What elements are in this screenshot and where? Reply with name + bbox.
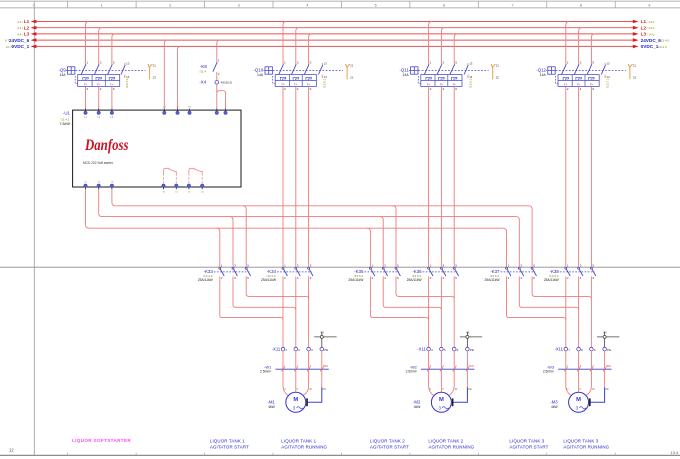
svg-text:4kW: 4kW — [268, 405, 275, 409]
svg-text:-K33: -K33 — [204, 269, 214, 274]
breaker Q12 linkage dashed line — [556, 70, 626, 72]
svg-text:5: 5 — [592, 61, 594, 65]
wire Q11 pole 1 output — [428, 86, 430, 267]
svg-text:I>: I> — [590, 82, 593, 86]
contactor K38 pole pin 1-2 — [565, 264, 570, 280]
wire Q12 pole 1 output — [565, 86, 567, 267]
terminal X11:2 — [294, 347, 300, 351]
breaker Q10 pole contact pin 1-2 — [279, 61, 286, 91]
svg-text:6: 6 — [455, 87, 457, 91]
svg-text:13.4: 13.4 — [671, 450, 680, 455]
wire tap U1 supply + from 24VDC_6 — [164, 40, 167, 111]
bus 24VDC_6 right label — [641, 38, 670, 43]
frame ruler tick at margin — [33, 1, 35, 8]
PE symbol group 3 — [597, 330, 619, 347]
contactor K33 pole pin 1-2 — [219, 264, 224, 280]
cable -W3 core 9 marker — [590, 365, 595, 371]
breaker Q10 pole contact pin 5-6 — [304, 61, 311, 91]
svg-text:-K36: -K36 — [412, 269, 422, 274]
U1 top terminal pin 5 — [110, 107, 114, 119]
wire X11 to motor -M2 phase U — [429, 351, 435, 396]
bus L2 right arrow — [633, 26, 639, 30]
svg-text:/ 14.0: / 14.0 — [647, 26, 655, 30]
svg-text:24VDC_6: 24VDC_6 — [9, 38, 30, 43]
U1 internal relay contact 189-202 — [189, 168, 202, 183]
svg-text:25A/11kW: 25A/11kW — [407, 278, 423, 282]
svg-text:M: M — [576, 397, 581, 403]
wire K35 pin 2 to motor column — [370, 276, 428, 320]
wire K37 pin 6 to motor column — [532, 276, 591, 299]
wire tap Q9 pole 3 from L3 — [112, 34, 115, 65]
svg-text:14A: 14A — [257, 73, 264, 77]
breaker Q11 aux contact 13/14 — [464, 62, 473, 79]
svg-text:5: 5 — [444, 348, 446, 352]
svg-text:/ 13.4.0: / 13.4.0 — [656, 45, 667, 49]
U1 bottom terminal T pin 2 — [84, 182, 88, 190]
breaker Q10 aux contact 13/14 — [319, 62, 328, 79]
terminal X11:1 — [281, 347, 287, 351]
bus 0VDC_1 right arrow — [633, 45, 639, 49]
bus L2 left arrow — [31, 26, 37, 30]
svg-text:13: 13 — [126, 62, 130, 66]
svg-text:14A: 14A — [403, 73, 410, 77]
wire tap K8 contact from 24VDC_6 — [217, 40, 220, 62]
svg-text:L3: L3 — [24, 32, 30, 37]
circuit-breaker -Q12 — [536, 68, 546, 78]
wire K33 pin 6 to motor column — [246, 276, 308, 299]
breaker Q9 trip-signal contact 21/22 — [148, 63, 156, 79]
svg-text:PE: PE — [468, 387, 472, 391]
function text LIQUOR TANK 1 AGITATOR START — [210, 439, 249, 450]
U1 top terminal pin A2 — [176, 106, 180, 120]
svg-text:21: 21 — [350, 63, 354, 67]
svg-text:3: 3 — [580, 61, 582, 65]
contactor -K34 labels — [261, 269, 277, 282]
svg-text:12.7 /: 12.7 / — [6, 45, 14, 49]
svg-text:14: 14 — [606, 75, 610, 79]
wire X11 to motor -M3 phase U — [566, 351, 572, 396]
wire tap U1 supply - from 0VDC_1 — [178, 46, 181, 111]
svg-text:/11.4.1: /11.4.1 — [60, 117, 70, 121]
svg-text:··: ·· — [177, 116, 179, 120]
wire tap Q10 pole 3 from L3 — [309, 34, 312, 65]
bus L2 left label — [17, 25, 29, 30]
svg-text:-K35: -K35 — [354, 269, 364, 274]
svg-text:1: 1 — [285, 348, 287, 352]
bus 0VDC_1 left label — [6, 44, 30, 49]
wire K34 pin 6 down to X11 — [308, 276, 310, 347]
svg-text:25A/11kW: 25A/11kW — [544, 278, 560, 282]
svg-text:L2: L2 — [24, 25, 30, 30]
U1 bottom terminal T pin 4 — [97, 182, 101, 190]
U1 top terminal pin 2 — [224, 107, 227, 120]
svg-text:AGITATOR RUNNING: AGITATOR RUNNING — [428, 445, 474, 450]
svg-text:6: 6 — [310, 87, 312, 91]
svg-text:/13.7.1: /13.7.1 — [606, 78, 610, 88]
svg-text:14A: 14A — [540, 73, 547, 77]
bus 24VDC_6 wire — [33, 39, 635, 41]
breaker Q11 pole contact pin 3-4 — [437, 61, 444, 91]
svg-text:8: 8 — [580, 4, 582, 8]
bus L1 wire — [33, 21, 635, 23]
svg-text:3: 3 — [238, 4, 240, 8]
svg-text:PE: PE — [470, 348, 474, 352]
breaker Q9 aux contact 13/14 — [121, 62, 130, 79]
breaker Q11 trip-signal contact 21/22 — [491, 63, 499, 79]
svg-text:L2: L2 — [641, 25, 647, 30]
cable -W2 core PEN marker — [466, 365, 474, 371]
svg-text:1: 1 — [430, 61, 432, 65]
wire tap Q12 pole 3 from L3 — [591, 34, 594, 65]
breaker Q9 pole contact pin 3-4 — [95, 61, 102, 91]
contactor K36 pole pin 1-2 — [428, 264, 433, 280]
panel separator line — [0, 266, 680, 268]
bus L3 right arrow — [633, 32, 639, 36]
terminal X11:PE — [603, 347, 611, 351]
svg-text:-X4: -X4 — [199, 80, 206, 85]
svg-text:4: 4 — [442, 87, 444, 91]
U1 top terminal pin A1 — [163, 106, 167, 120]
wire U1 output T at x=98.7 to start contactors — [99, 189, 520, 267]
cable -W1 core PEN marker — [320, 365, 328, 371]
svg-text:-X11: -X11 — [554, 347, 563, 352]
svg-text:-W2: -W2 — [410, 364, 417, 369]
svg-text:V: V — [297, 387, 299, 391]
svg-text:25A/11kW: 25A/11kW — [198, 278, 214, 282]
breaker Q11 pole contact pin 5-6 — [450, 61, 457, 91]
svg-text:22: 22 — [153, 75, 157, 79]
wire Q12 pole 3 output — [590, 86, 592, 267]
breaker Q10 linkage dashed line — [273, 70, 343, 72]
svg-text:-K38: -K38 — [550, 269, 560, 274]
svg-text:-Q11: -Q11 — [399, 68, 409, 73]
svg-text:14: 14 — [324, 75, 328, 79]
contactor -K36 labels — [407, 269, 423, 282]
wire K34 pin 2 down to X11 — [282, 276, 284, 347]
svg-text:22: 22 — [633, 75, 637, 79]
wire K33 pin 4 to motor column — [233, 276, 296, 310]
bus L3 left label — [17, 32, 29, 37]
svg-text:AGITATOR START: AGITATOR START — [210, 445, 249, 450]
breaker Q9 linkage dashed line — [75, 70, 145, 72]
bus 0VDC_1 right label — [641, 44, 667, 49]
breaker Q9 pole contact pin 5-6 — [108, 61, 115, 91]
svg-text:2.5mm²: 2.5mm² — [406, 370, 418, 374]
wire X11 to motor -M2 phase V — [441, 351, 444, 392]
svg-text:3: 3 — [442, 61, 444, 65]
soft starter U1 outline — [73, 110, 241, 187]
svg-text:V: V — [442, 387, 444, 391]
svg-text:LIQUOR SOFTSTARTER: LIQUOR SOFTSTARTER — [72, 438, 131, 443]
svg-text:V: V — [579, 387, 581, 391]
svg-text:I>: I> — [577, 82, 580, 86]
svg-text:1: 1 — [101, 4, 103, 8]
bus 24VDC_6 left arrow — [31, 38, 37, 42]
svg-text:/ 14.0: / 14.0 — [647, 32, 655, 36]
svg-text:-X11: -X11 — [417, 347, 426, 352]
svg-text:/13.5.1: /13.5.1 — [323, 78, 327, 88]
svg-text:1: 1 — [87, 61, 89, 65]
svg-text:7: 7 — [512, 4, 514, 8]
svg-text:4.4 /: 4.4 / — [17, 26, 23, 30]
svg-text:3: 3 — [438, 405, 441, 410]
svg-text:4: 4 — [297, 87, 299, 91]
svg-text:2: 2 — [169, 4, 171, 8]
svg-text:PE: PE — [324, 348, 328, 352]
contactor K35 pole pin 3-4 — [382, 264, 387, 280]
wire K38 pin 2 down to X11 — [565, 276, 567, 347]
frame top ruler — [0, 1, 680, 8]
svg-text:5: 5 — [375, 4, 377, 8]
contactor K36 pole pin 3-4 — [440, 264, 445, 280]
svg-text:/11.4: /11.4 — [200, 69, 207, 73]
svg-text:13: 13 — [606, 62, 610, 66]
svg-text:-M2: -M2 — [413, 400, 421, 405]
svg-text:21: 21 — [633, 63, 637, 67]
breaker Q11 pole contact pin 1-2 — [424, 61, 431, 91]
wire X11 PE to motor -M3 — [590, 351, 609, 406]
wire X11 to motor -M1 phase V — [296, 351, 299, 392]
breaker Q11 thermal-magnetic trip box — [418, 75, 462, 87]
wire tap Q9 pole 1 from L1 — [86, 22, 89, 65]
svg-text:2.5mm²: 2.5mm² — [543, 370, 555, 374]
cable -W2 core 5 marker — [440, 365, 445, 371]
svg-text:1: 1 — [284, 61, 286, 65]
contactor K37 pole pin 5-6 — [531, 264, 536, 280]
svg-text:-Q10: -Q10 — [253, 68, 263, 73]
svg-text:/ 13.4.0: / 13.4.0 — [659, 39, 670, 43]
function text LIQUOR TANK 3 AGITATOR START — [509, 439, 548, 450]
svg-text:4W(26.5): 4W(26.5) — [221, 81, 233, 85]
svg-text:14: 14 — [126, 75, 130, 79]
wire Q11 pole 3 output — [453, 86, 455, 267]
soft starter U1 labels — [59, 111, 70, 126]
svg-text:9: 9 — [594, 348, 596, 352]
contactor K33 linkage dashed line — [214, 271, 249, 273]
svg-text:14: 14 — [469, 75, 473, 79]
contactor K34 pole pin 3-4 — [295, 264, 300, 280]
breaker Q12 pole contact pin 3-4 — [574, 61, 581, 91]
bus L1 right arrow — [633, 20, 639, 24]
breaker Q12 manual actuator — [546, 67, 555, 74]
frame bottom ruler line — [0, 453, 680, 456]
wire Q10 pole 3 output — [308, 86, 310, 267]
contactor K33 pole pin 5-6 — [245, 264, 250, 280]
svg-text:I>: I> — [294, 82, 297, 86]
cable -W1 — [260, 364, 329, 373]
cable -W2 core 6 marker — [453, 365, 458, 371]
contactor K34 pole pin 5-6 — [308, 264, 313, 280]
svg-text:4kW: 4kW — [414, 405, 421, 409]
svg-text:··: ·· — [163, 116, 165, 120]
bus 0VDC_1 left arrow — [31, 45, 37, 49]
svg-text:3: 3 — [311, 348, 313, 352]
contactor K37 linkage dashed line — [501, 271, 536, 273]
wire tap Q12 pole 1 from L1 — [566, 22, 569, 65]
svg-text:PEN: PEN — [323, 365, 328, 368]
svg-text:25A/11kW: 25A/11kW — [261, 278, 277, 282]
svg-text:L1: L1 — [641, 19, 647, 24]
breaker Q9 pole contact pin 1-2 — [81, 61, 88, 91]
wire branch drop at x=233.0 — [230, 217, 233, 268]
svg-text:LIQUOR TANK 2: LIQUOR TANK 2 — [370, 439, 405, 444]
svg-text:PE: PE — [603, 330, 607, 334]
svg-text:5: 5 — [113, 61, 115, 65]
breaker Q9 manual actuator — [66, 67, 75, 74]
svg-text:PEN: PEN — [606, 365, 611, 368]
svg-text:U: U — [567, 387, 569, 391]
svg-text:9: 9 — [648, 4, 650, 8]
svg-text:PE: PE — [605, 387, 609, 391]
wire branch drop at x=219.8 — [216, 228, 219, 267]
wire X11 PE to motor -M1 — [307, 351, 326, 406]
terminal -X4 — [199, 80, 232, 85]
svg-text:5: 5 — [455, 61, 457, 65]
svg-text:MCD 202 Soft starter: MCD 202 Soft starter — [83, 161, 114, 165]
svg-text:AGITATOR START: AGITATOR START — [370, 445, 409, 450]
cable -W3 core 7 marker — [564, 365, 569, 371]
U1 relay output terminal pin 23 — [187, 184, 191, 193]
svg-text:3: 3 — [297, 61, 299, 65]
svg-text:I>: I> — [564, 82, 567, 86]
svg-text:25A/11kW: 25A/11kW — [485, 278, 501, 282]
bus L3 wire — [33, 33, 635, 35]
svg-text:-W3: -W3 — [547, 364, 554, 369]
svg-text:4: 4 — [580, 87, 582, 91]
svg-text:LIQUOR TANK 1: LIQUOR TANK 1 — [281, 439, 316, 444]
svg-text:13: 13 — [469, 62, 473, 66]
svg-text:3: 3 — [576, 405, 579, 410]
svg-text:1: 1 — [567, 61, 569, 65]
circuit-breaker -Q9 — [58, 68, 66, 78]
U1 top terminal pin 3 — [97, 107, 101, 119]
svg-text:LIQUOR TANK 1: LIQUOR TANK 1 — [210, 439, 245, 444]
PE symbol group 2 — [460, 330, 482, 347]
function text LIQUOR TANK 1 AGITATOR RUNNING — [281, 439, 327, 450]
wire K35 pin 6 to motor column — [396, 276, 454, 299]
wire tap Q11 pole 2 from L2 — [441, 28, 444, 65]
wire tap Q11 pole 1 from L1 — [429, 22, 432, 65]
svg-text:L3: L3 — [641, 32, 647, 37]
terminal X11:PE — [466, 347, 474, 351]
svg-text:13: 13 — [324, 62, 328, 66]
svg-text:-Q9: -Q9 — [58, 68, 66, 73]
circuit-breaker -Q10 — [253, 68, 263, 78]
wire branch drop at x=383.2 — [380, 217, 383, 268]
svg-text:I>: I> — [427, 82, 430, 86]
svg-text:-M3: -M3 — [550, 400, 558, 405]
svg-text:M: M — [439, 397, 444, 403]
svg-text:12: 12 — [9, 448, 14, 453]
wire K33 pin 2 to motor column — [220, 276, 283, 320]
contactor K35 pole pin 1-2 — [369, 264, 374, 280]
wire X11 to motor -M1 phase U — [283, 351, 289, 396]
wire K8 to X4 — [216, 72, 218, 81]
breaker Q12 pole contact pin 1-2 — [562, 61, 569, 91]
wire Q10 pole 1 output — [282, 86, 284, 267]
contactor -K37 labels — [485, 269, 501, 282]
contactor K35 pole pin 5-6 — [395, 264, 400, 280]
contactor K37 pole pin 3-4 — [518, 264, 523, 280]
wire K34 pin 4 down to X11 — [295, 276, 297, 347]
svg-text:-U1: -U1 — [63, 111, 71, 116]
function text LIQUOR TANK 2 AGITATOR START — [370, 439, 409, 450]
cable -W3 core 8 marker — [577, 365, 582, 371]
svg-text:LIQUOR TANK 3: LIQUOR TANK 3 — [563, 439, 598, 444]
contactor K33 pole pin 3-4 — [232, 264, 237, 280]
cable -W2 core 4 marker — [427, 365, 432, 371]
svg-text:··: ·· — [216, 116, 218, 120]
contactor -K38 labels — [544, 269, 560, 282]
frame left margin line — [33, 8, 35, 456]
wire Q12 pole 2 output — [578, 86, 580, 267]
svg-text:/13.4.1: /13.4.1 — [125, 78, 129, 88]
wire K35 pin 4 to motor column — [383, 276, 441, 310]
wire tap Q10 pole 2 from L2 — [296, 28, 299, 65]
contactor K34 pole pin 1-2 — [282, 264, 287, 280]
wire K37 pin 2 to motor column — [507, 276, 566, 320]
wire branch drop at x=396.0 — [393, 206, 396, 267]
svg-text:I>: I> — [453, 82, 456, 86]
svg-text:2: 2 — [567, 87, 569, 91]
wire X11 PE to motor -M2 — [453, 351, 472, 406]
svg-text:-M1: -M1 — [267, 400, 275, 405]
contactor K36 pole pin 5-6 — [453, 264, 458, 280]
svg-text:2: 2 — [284, 87, 286, 91]
svg-text:4kW: 4kW — [551, 405, 558, 409]
contactor K38 pole pin 5-6 — [590, 264, 595, 280]
wire branch to U1 second control input — [217, 91, 226, 111]
terminal X11:5 — [440, 347, 446, 351]
terminal X11:3 — [307, 347, 313, 351]
U1 internal relay contact 164-176 — [164, 168, 177, 183]
wire Q9 pole 1 output — [85, 86, 87, 111]
wire X4 to U1 control input — [216, 84, 218, 111]
U1 relay output terminal pin 24 — [201, 184, 205, 193]
bus 24VDC_6 left label — [5, 38, 30, 43]
svg-text:4.4 /: 4.4 / — [17, 32, 23, 36]
terminal X11:9 — [590, 347, 596, 351]
breaker Q10 trip-signal contact 21/22 — [346, 63, 354, 79]
terminal X11:4 — [427, 347, 433, 351]
svg-text:I>: I> — [84, 82, 87, 86]
breaker Q11 linkage dashed line — [418, 70, 488, 72]
contactor K36 linkage dashed line — [423, 271, 458, 273]
terminal X11:PE — [320, 347, 328, 351]
wire Q9 pole 3 output — [111, 86, 113, 111]
svg-text:3: 3 — [293, 405, 296, 410]
wire branch drop at x=370.4 — [367, 228, 370, 267]
contactor K38 linkage dashed line — [560, 271, 595, 273]
bus L2 wire — [33, 27, 635, 29]
contactor K35 linkage dashed line — [364, 271, 399, 273]
svg-text:PE: PE — [323, 387, 327, 391]
svg-text:I>: I> — [281, 82, 284, 86]
svg-text:4: 4 — [100, 87, 102, 91]
svg-text:/ 14.0: / 14.0 — [647, 20, 655, 24]
relay contact -K8 — [200, 58, 220, 76]
svg-text:-W1: -W1 — [264, 364, 271, 369]
svg-text:-K37: -K37 — [490, 269, 500, 274]
wire tap Q11 pole 3 from L3 — [454, 34, 457, 65]
svg-text:-X11: -X11 — [272, 347, 281, 352]
frame ruler column numbers — [33, 4, 651, 8]
svg-text:LIQUOR TANK 2: LIQUOR TANK 2 — [428, 439, 463, 444]
svg-text:4: 4 — [431, 348, 433, 352]
U1 bottom terminal T pin 6 — [110, 182, 114, 190]
svg-text:7.5kW: 7.5kW — [59, 122, 70, 126]
breaker Q12 aux contact 13/14 — [601, 62, 610, 79]
